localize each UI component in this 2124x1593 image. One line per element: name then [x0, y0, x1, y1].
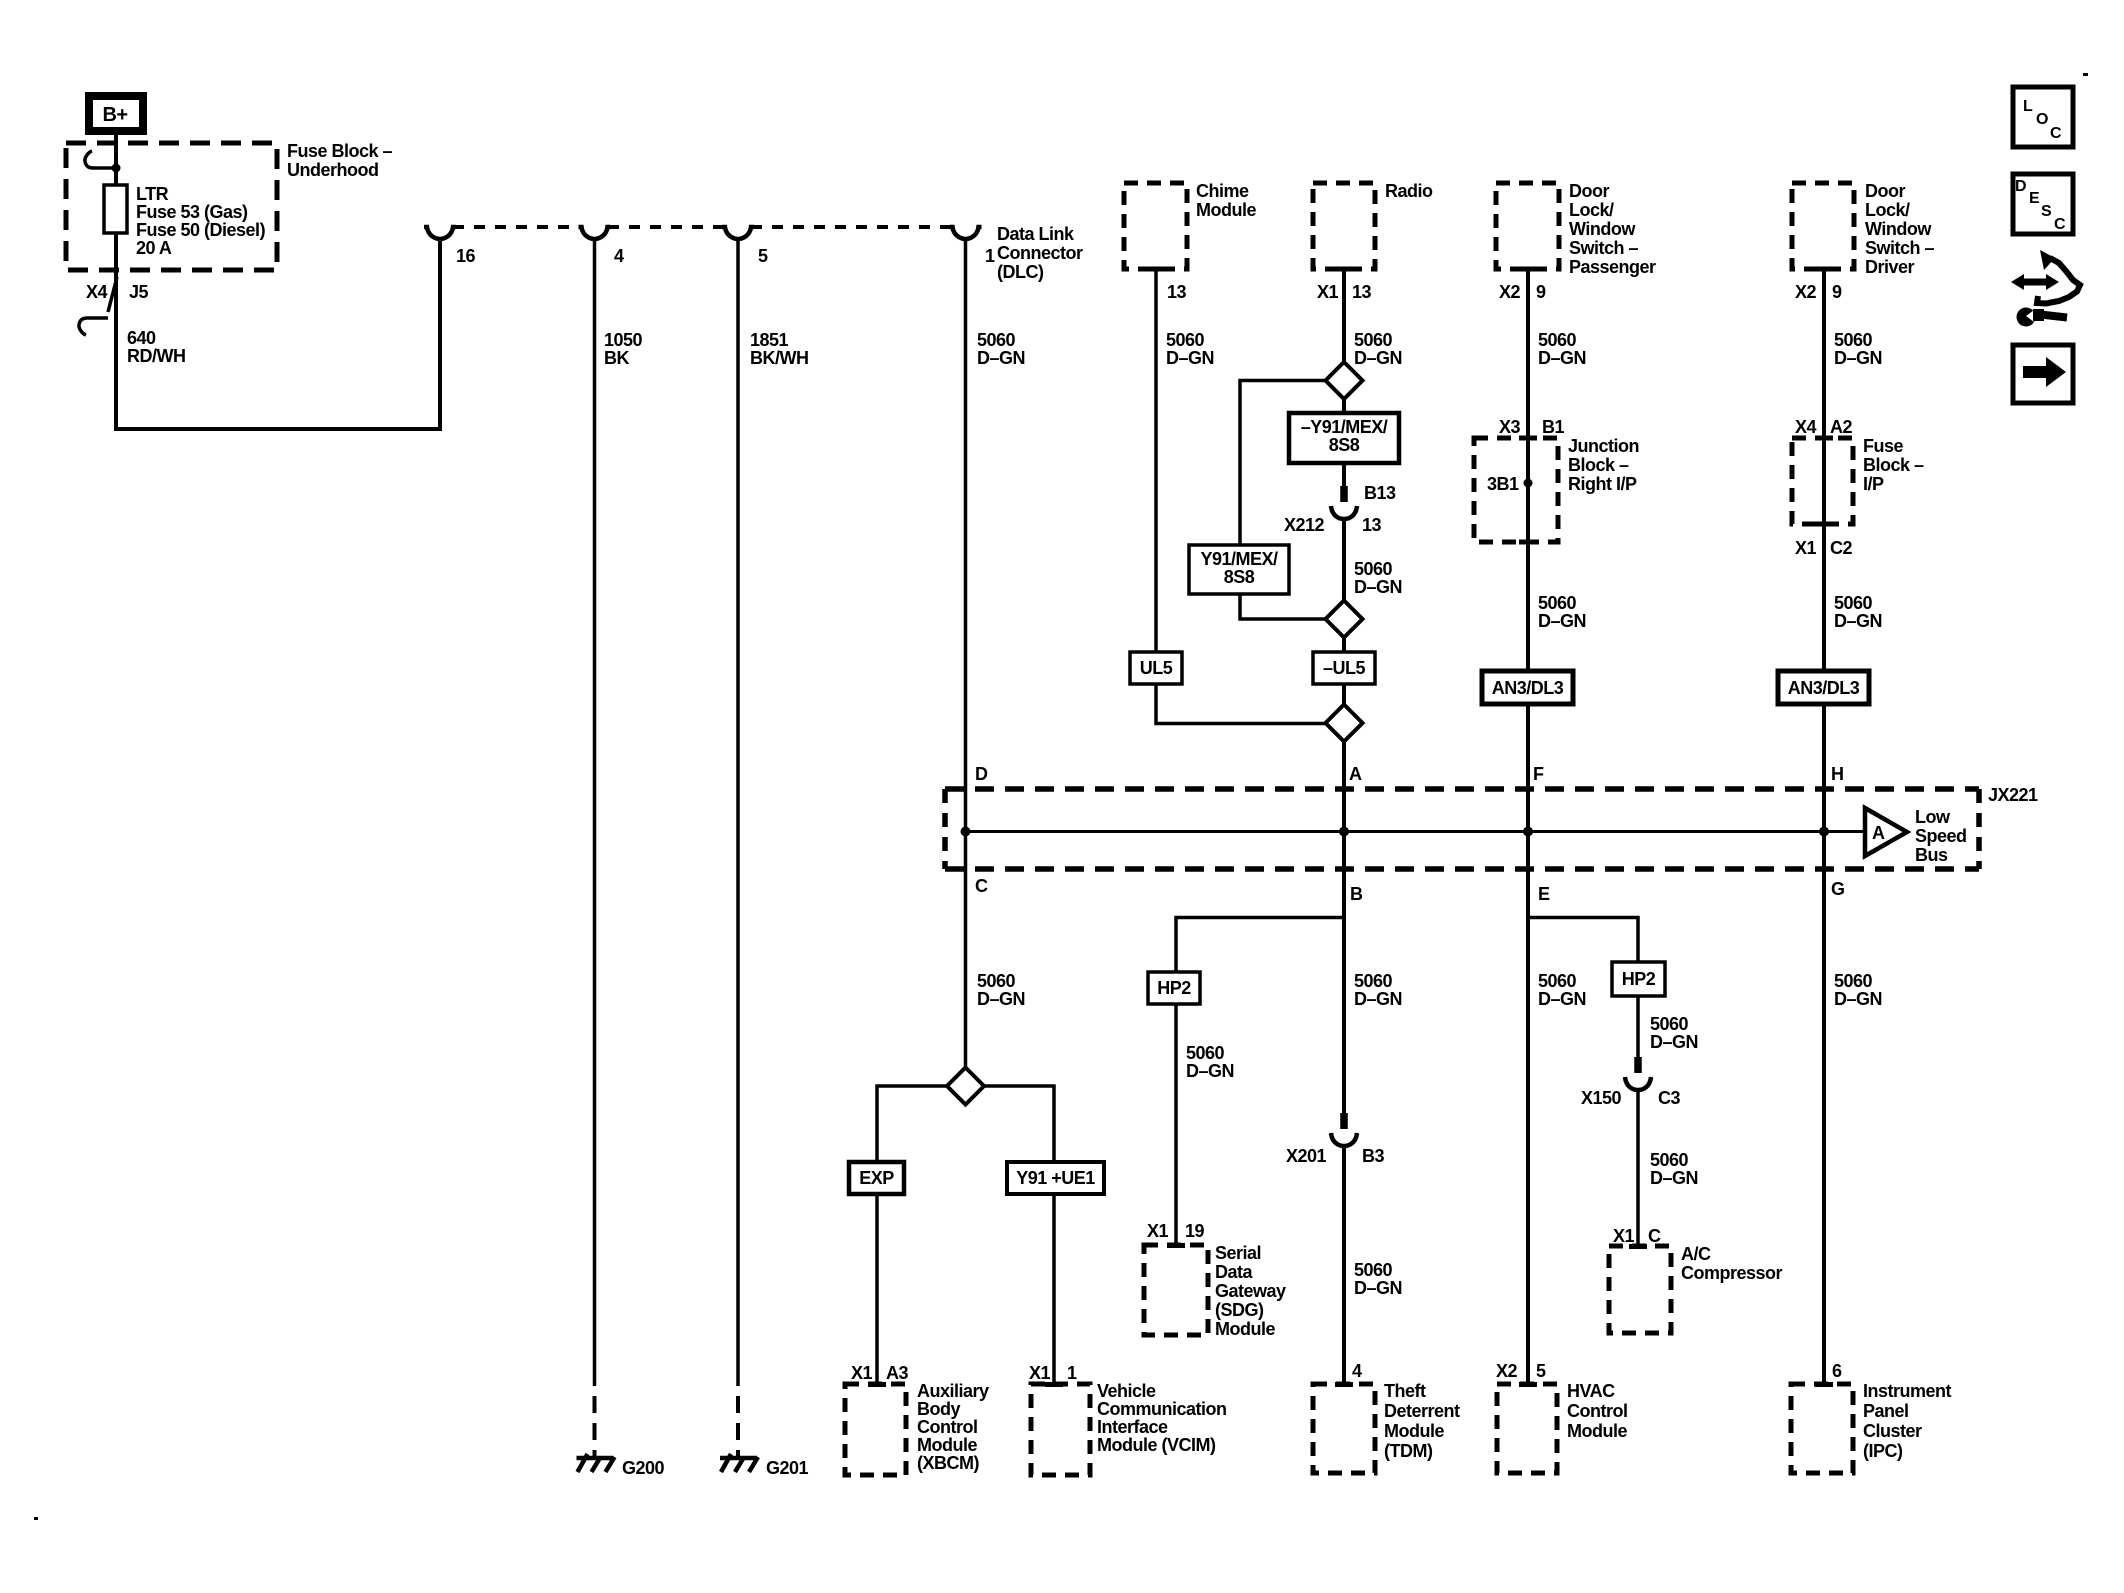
module Radio dashed box	[1313, 183, 1375, 269]
bypass wire to Y91/MEX/8S8	[1240, 381, 1326, 546]
svg-text:EXP: EXP	[859, 1168, 894, 1188]
svg-text:–UL5: –UL5	[1323, 658, 1366, 678]
svg-text:(TDM): (TDM)	[1384, 1441, 1433, 1461]
svg-text:5: 5	[1536, 1361, 1546, 1381]
svg-text:S: S	[2041, 203, 2052, 220]
module Chime Module dashed box	[1124, 183, 1187, 269]
wire S2 to -Y91/MEX box	[1342, 399, 1346, 413]
terminal tick radio	[1335, 267, 1353, 272]
svg-text:BK/WH: BK/WH	[750, 348, 809, 368]
svg-text:5060: 5060	[977, 971, 1016, 991]
svg-text:C2: C2	[1830, 538, 1852, 558]
svg-text:X2: X2	[1499, 282, 1521, 302]
module Door Lock/Window Switch Passenger dashed box	[1496, 183, 1559, 269]
svg-text:Block –: Block –	[1863, 455, 1924, 475]
svg-text:X1: X1	[1147, 1221, 1169, 1241]
svg-text:X1: X1	[1795, 538, 1817, 558]
legend icon arrows and wrench	[2022, 279, 2048, 286]
wire AN3/DL3 to bus node F/E and HVAC	[1526, 704, 1530, 1384]
junction dot node D/C	[961, 827, 971, 837]
svg-text:AN3/DL3: AN3/DL3	[1788, 678, 1860, 698]
svg-text:D–GN: D–GN	[1650, 1168, 1698, 1188]
option box HP2 serial data	[1148, 972, 1200, 1004]
svg-text:5060: 5060	[1354, 1260, 1393, 1280]
option box -UL5	[1313, 652, 1375, 684]
svg-text:C: C	[2050, 125, 2062, 142]
wire HP2 to X150	[1636, 996, 1640, 1057]
svg-text:D–GN: D–GN	[977, 989, 1025, 1009]
terminal tick driver switch	[1815, 267, 1833, 272]
connector cup 5	[722, 227, 754, 239]
svg-text:6: 6	[1832, 1361, 1842, 1381]
svg-text:G201: G201	[766, 1458, 809, 1478]
svg-text:HP2: HP2	[1157, 978, 1191, 998]
module HVAC dashed box	[1497, 1384, 1557, 1473]
svg-text:Module (VCIM): Module (VCIM)	[1097, 1435, 1216, 1455]
junction dot node H/G	[1819, 827, 1829, 837]
svg-text:8S8: 8S8	[1329, 435, 1360, 455]
svg-text:Fuse: Fuse	[1863, 436, 1904, 456]
svg-text:C: C	[1648, 1226, 1661, 1246]
ground G200	[577, 1456, 614, 1461]
splice diamond S3	[1326, 601, 1363, 638]
wire 5060 D-GN radio	[1342, 269, 1346, 362]
svg-text:Interface: Interface	[1097, 1417, 1168, 1437]
module Door Lock/Window Switch Driver dashed box	[1792, 183, 1854, 269]
branch wire to HP2 A/C	[1528, 918, 1638, 963]
terminal tick chime	[1147, 267, 1165, 272]
svg-text:X150: X150	[1581, 1088, 1622, 1108]
svg-text:Control: Control	[1567, 1401, 1627, 1421]
svg-text:Connector: Connector	[997, 243, 1083, 263]
junction block right I/P dashed box	[1474, 438, 1558, 542]
svg-text:5060: 5060	[1834, 971, 1873, 991]
svg-text:5060: 5060	[1834, 330, 1873, 350]
branch wire to HP2 SDG	[1176, 918, 1344, 973]
svg-text:F: F	[1533, 764, 1544, 784]
svg-text:Module: Module	[1196, 200, 1256, 220]
dashed lead to G201	[736, 1386, 740, 1456]
ground G201	[720, 1456, 757, 1461]
splice diamond S2 radio	[1326, 362, 1363, 399]
inline connector X150 pin C3	[1634, 1057, 1642, 1073]
wire -Y91/MEX to connector X212	[1342, 463, 1346, 486]
connector cup 1 DLC	[950, 227, 982, 239]
splice diamond S4	[1326, 705, 1363, 742]
terminal tick XBCM	[868, 1382, 886, 1387]
svg-text:I/P: I/P	[1863, 474, 1884, 494]
svg-text:E: E	[2029, 190, 2040, 207]
svg-text:8S8: 8S8	[1224, 567, 1255, 587]
svg-text:D–GN: D–GN	[1354, 1278, 1402, 1298]
wire branch to EXP	[877, 1086, 947, 1162]
svg-text:HP2: HP2	[1622, 969, 1656, 989]
splice diamond S1 on DLC wire	[947, 1068, 984, 1105]
svg-text:Communication: Communication	[1097, 1399, 1227, 1419]
svg-text:(SDG): (SDG)	[1215, 1300, 1264, 1320]
svg-text:X212: X212	[1284, 515, 1325, 535]
option box -Y91/MEX/8S8	[1289, 413, 1399, 463]
legend icon DESC	[2013, 174, 2073, 234]
svg-text:D–GN: D–GN	[1834, 989, 1882, 1009]
svg-text:1050: 1050	[604, 330, 643, 350]
wire X201 to TDM	[1342, 1146, 1346, 1384]
svg-text:4: 4	[1352, 1361, 1362, 1381]
wire X212 to splice S3	[1342, 519, 1346, 601]
svg-text:D–GN: D–GN	[1834, 348, 1882, 368]
svg-text:19: 19	[1185, 1221, 1205, 1241]
svg-text:16: 16	[456, 246, 476, 266]
svg-text:BK: BK	[604, 348, 629, 368]
svg-text:–Y91/MEX/: –Y91/MEX/	[1301, 417, 1388, 437]
terminal tick SDG	[1167, 1243, 1185, 1248]
svg-text:H: H	[1831, 764, 1844, 784]
svg-text:Switch –: Switch –	[1569, 238, 1639, 258]
wire branch to Y91 +UE1	[984, 1086, 1054, 1162]
wire HP2 to SDG	[1174, 1004, 1178, 1245]
svg-text:Body: Body	[917, 1399, 960, 1419]
page mark bottom left	[34, 1517, 38, 1520]
svg-text:X4: X4	[86, 282, 108, 302]
wire 1851 BK/WH	[736, 239, 740, 1386]
dashed wire segment 4-5	[608, 225, 725, 229]
svg-text:X1: X1	[1029, 1363, 1051, 1383]
svg-text:5: 5	[758, 246, 768, 266]
svg-text:C: C	[2054, 216, 2066, 233]
option box AN3/DL3 passenger	[1482, 671, 1573, 704]
svg-text:Fuse 53 (Gas): Fuse 53 (Gas)	[136, 202, 248, 222]
svg-text:L: L	[2023, 98, 2033, 115]
wire UL5 to splice S4	[1156, 684, 1325, 724]
svg-text:5060: 5060	[1650, 1150, 1689, 1170]
svg-text:5060: 5060	[1538, 971, 1577, 991]
svg-text:A3: A3	[886, 1363, 908, 1383]
option box HP2 A/C	[1612, 962, 1665, 996]
wire X150 to A/C compressor	[1636, 1090, 1640, 1246]
svg-text:O: O	[2036, 111, 2048, 128]
svg-text:5060: 5060	[1354, 971, 1393, 991]
svg-text:D–GN: D–GN	[1538, 348, 1586, 368]
svg-text:Lock/: Lock/	[1569, 200, 1614, 220]
option box EXP	[849, 1162, 904, 1194]
option box UL5	[1130, 652, 1182, 684]
svg-text:X3: X3	[1499, 417, 1521, 437]
svg-text:5060: 5060	[1354, 330, 1393, 350]
svg-text:Window: Window	[1569, 219, 1636, 239]
svg-text:E: E	[1538, 884, 1550, 904]
module TDM dashed box	[1313, 1384, 1375, 1473]
svg-text:A: A	[1872, 823, 1885, 843]
svg-text:X1: X1	[1613, 1226, 1635, 1246]
svg-text:5060: 5060	[1538, 330, 1577, 350]
terminal tick A/C compressor	[1629, 1244, 1647, 1249]
svg-text:5060: 5060	[1538, 593, 1577, 613]
svg-text:Cluster: Cluster	[1863, 1421, 1922, 1441]
svg-text:(IPC): (IPC)	[1863, 1441, 1903, 1461]
svg-text:Speed: Speed	[1915, 826, 1967, 846]
svg-text:D–GN: D–GN	[1538, 611, 1586, 631]
junction dot node A/B	[1339, 827, 1349, 837]
svg-text:Instrument: Instrument	[1863, 1381, 1952, 1401]
svg-text:13: 13	[1352, 282, 1372, 302]
terminal tick IPC	[1815, 1382, 1833, 1387]
svg-text:13: 13	[1362, 515, 1382, 535]
svg-text:Gateway: Gateway	[1215, 1281, 1286, 1301]
wire 5060 D-GN from DLC	[964, 239, 968, 1068]
fuse LTR 20A	[104, 185, 127, 233]
dashed wire segment 5-1	[751, 225, 952, 229]
svg-text:G200: G200	[622, 1458, 665, 1478]
svg-text:9: 9	[1536, 282, 1546, 302]
svg-text:X4: X4	[1795, 417, 1817, 437]
svg-text:1: 1	[985, 246, 995, 266]
connector stub inside fuse block	[93, 166, 116, 170]
svg-text:3B1: 3B1	[1487, 474, 1519, 494]
svg-text:Switch –: Switch –	[1865, 238, 1935, 258]
dashed lead to G200	[593, 1386, 597, 1456]
terminal tick TDM	[1335, 1382, 1353, 1387]
svg-text:X1: X1	[1317, 282, 1339, 302]
terminal tick junction block bottom	[1519, 540, 1537, 545]
svg-text:9: 9	[1832, 282, 1842, 302]
svg-text:Module: Module	[917, 1435, 977, 1455]
svg-text:640: 640	[127, 328, 156, 348]
svg-text:Module: Module	[1384, 1421, 1444, 1441]
legend icon forward arrow box	[2013, 345, 2073, 403]
svg-text:Deterrent: Deterrent	[1384, 1401, 1460, 1421]
low speed bus wire	[966, 830, 1866, 833]
wire Y91/MEX box to splice S3	[1240, 594, 1326, 619]
svg-text:Module: Module	[1215, 1319, 1275, 1339]
legend icon LOC	[2013, 87, 2073, 147]
option box AN3/DL3 driver	[1778, 671, 1869, 704]
svg-text:13: 13	[1167, 282, 1187, 302]
svg-text:1: 1	[1067, 1363, 1077, 1383]
svg-text:Auxiliary: Auxiliary	[917, 1381, 989, 1401]
svg-text:Junction: Junction	[1568, 436, 1639, 456]
svg-text:(XBCM): (XBCM)	[917, 1453, 979, 1473]
svg-text:Serial: Serial	[1215, 1243, 1261, 1263]
option box Y91/MEX/8S8	[1189, 545, 1289, 594]
svg-text:X2: X2	[1795, 282, 1817, 302]
svg-text:J5: J5	[129, 282, 149, 302]
svg-text:5060: 5060	[1186, 1043, 1225, 1063]
svg-text:B13: B13	[1364, 483, 1396, 503]
svg-text:D–GN: D–GN	[977, 348, 1025, 368]
svg-text:X1: X1	[851, 1363, 873, 1383]
page mark top right	[2083, 73, 2088, 76]
svg-text:Fuse 50 (Diesel): Fuse 50 (Diesel)	[136, 220, 266, 240]
svg-text:UL5: UL5	[1140, 658, 1173, 678]
svg-text:Passenger: Passenger	[1569, 257, 1656, 277]
svg-text:(DLC): (DLC)	[997, 262, 1044, 282]
svg-text:Vehicle: Vehicle	[1097, 1381, 1156, 1401]
B+ battery feed symbol	[89, 96, 143, 131]
svg-text:D–GN: D–GN	[1354, 989, 1402, 1009]
wire EXP to XBCM	[875, 1194, 879, 1384]
module SDG dashed box	[1144, 1245, 1208, 1335]
svg-text:5060: 5060	[977, 330, 1016, 350]
connector cup 16	[424, 227, 456, 239]
junction dot node F/E	[1523, 827, 1533, 837]
svg-text:Driver: Driver	[1865, 257, 1915, 277]
svg-text:HVAC: HVAC	[1567, 1381, 1615, 1401]
terminal tick fuse block I/P bottom	[1815, 522, 1833, 527]
svg-text:Low: Low	[1915, 807, 1951, 827]
fuse block I/P dashed box	[1792, 438, 1853, 524]
svg-text:G: G	[1831, 879, 1845, 899]
svg-text:Data Link: Data Link	[997, 224, 1075, 244]
svg-text:Y91 +UE1: Y91 +UE1	[1016, 1168, 1095, 1188]
svg-text:A2: A2	[1830, 417, 1852, 437]
option box Y91 +UE1	[1007, 1162, 1104, 1194]
svg-text:Door: Door	[1569, 181, 1609, 201]
svg-text:20 A: 20 A	[136, 238, 172, 258]
svg-text:JX221: JX221	[1988, 785, 2038, 805]
svg-text:Data: Data	[1215, 1262, 1254, 1282]
svg-text:D: D	[2015, 178, 2027, 195]
svg-text:Theft: Theft	[1384, 1381, 1426, 1401]
svg-text:LTR: LTR	[136, 184, 169, 204]
connector X4 J5 marks	[108, 277, 117, 312]
svg-text:4: 4	[614, 246, 624, 266]
svg-text:Chime: Chime	[1196, 181, 1249, 201]
svg-text:D–GN: D–GN	[1650, 1032, 1698, 1052]
svg-text:AN3/DL3: AN3/DL3	[1492, 678, 1564, 698]
svg-text:D–GN: D–GN	[1166, 348, 1214, 368]
svg-text:Door: Door	[1865, 181, 1905, 201]
low speed bus JX221 dashed box	[945, 786, 1979, 792]
svg-text:Underhood: Underhood	[287, 160, 379, 180]
bus continuation triangle A	[1865, 808, 1907, 856]
svg-text:5060: 5060	[1834, 593, 1873, 613]
wire 5060 D-GN driver	[1822, 269, 1826, 671]
fuse block underhood dashed box	[66, 143, 277, 270]
svg-text:Panel: Panel	[1863, 1401, 1909, 1421]
terminal tick VCIM	[1045, 1382, 1063, 1387]
svg-text:Module: Module	[1567, 1421, 1627, 1441]
svg-text:B: B	[1350, 884, 1363, 904]
svg-text:X2: X2	[1496, 1361, 1518, 1381]
module XBCM dashed box	[845, 1384, 906, 1475]
svg-text:Right I/P: Right I/P	[1568, 474, 1637, 494]
terminal tick junction block top	[1519, 436, 1537, 441]
module IPC dashed box	[1791, 1384, 1853, 1473]
wire 640 RD/WH from B+ through fuse to connector 16	[116, 135, 440, 429]
module VCIM dashed box	[1031, 1384, 1090, 1475]
connector cup 4	[579, 227, 611, 239]
svg-text:D: D	[975, 764, 988, 784]
svg-text:1851: 1851	[750, 330, 789, 350]
svg-text:5060: 5060	[1166, 330, 1205, 350]
wire S3 to -UL5	[1342, 638, 1346, 653]
wire Y91+UE1 to VCIM	[1052, 1194, 1056, 1384]
svg-text:Fuse Block –: Fuse Block –	[287, 141, 393, 161]
svg-text:Control: Control	[917, 1417, 977, 1437]
wire -UL5 to splice S4	[1342, 684, 1346, 705]
dashed wire segment 16-4	[453, 225, 581, 229]
svg-text:Y91/MEX/: Y91/MEX/	[1200, 549, 1278, 569]
svg-text:Compressor: Compressor	[1681, 1263, 1783, 1283]
svg-text:Window: Window	[1865, 219, 1932, 239]
svg-text:5060: 5060	[1354, 559, 1393, 579]
svg-text:D–GN: D–GN	[1354, 348, 1402, 368]
wire 5060 D-GN passenger	[1526, 269, 1530, 671]
terminal tick HVAC	[1519, 1382, 1537, 1387]
svg-text:RD/WH: RD/WH	[127, 346, 186, 366]
svg-text:B1: B1	[1542, 417, 1564, 437]
inline connector X212 pin B13/13	[1340, 486, 1348, 502]
svg-text:D–GN: D–GN	[1186, 1061, 1234, 1081]
svg-text:Bus: Bus	[1915, 845, 1948, 865]
terminal tick passenger switch	[1519, 267, 1537, 272]
svg-text:B3: B3	[1362, 1146, 1384, 1166]
svg-text:A: A	[1349, 764, 1362, 784]
module A/C Compressor dashed box	[1609, 1246, 1671, 1333]
svg-text:5060: 5060	[1650, 1014, 1689, 1034]
wire AN3/DL3 to bus node H/G and IPC	[1822, 704, 1826, 1384]
svg-text:Block –: Block –	[1568, 455, 1629, 475]
svg-text:Radio: Radio	[1385, 181, 1433, 201]
wire 1050 BK	[593, 239, 597, 1386]
svg-text:D–GN: D–GN	[1834, 611, 1882, 631]
wire 5060 D-GN chime	[1154, 269, 1158, 652]
svg-text:C3: C3	[1658, 1088, 1680, 1108]
svg-text:D–GN: D–GN	[1538, 989, 1586, 1009]
terminal tick fuse block I/P top	[1815, 436, 1833, 441]
svg-text:A/C: A/C	[1681, 1244, 1711, 1264]
inline connector X201 pin B3	[1340, 1113, 1348, 1129]
wire S4 to bus node A/B and down to TDM	[1342, 742, 1346, 1114]
svg-text:X201: X201	[1286, 1146, 1327, 1166]
svg-text:B+: B+	[102, 104, 127, 126]
svg-text:D–GN: D–GN	[1354, 577, 1402, 597]
svg-text:Lock/: Lock/	[1865, 200, 1910, 220]
svg-text:C: C	[975, 876, 988, 896]
